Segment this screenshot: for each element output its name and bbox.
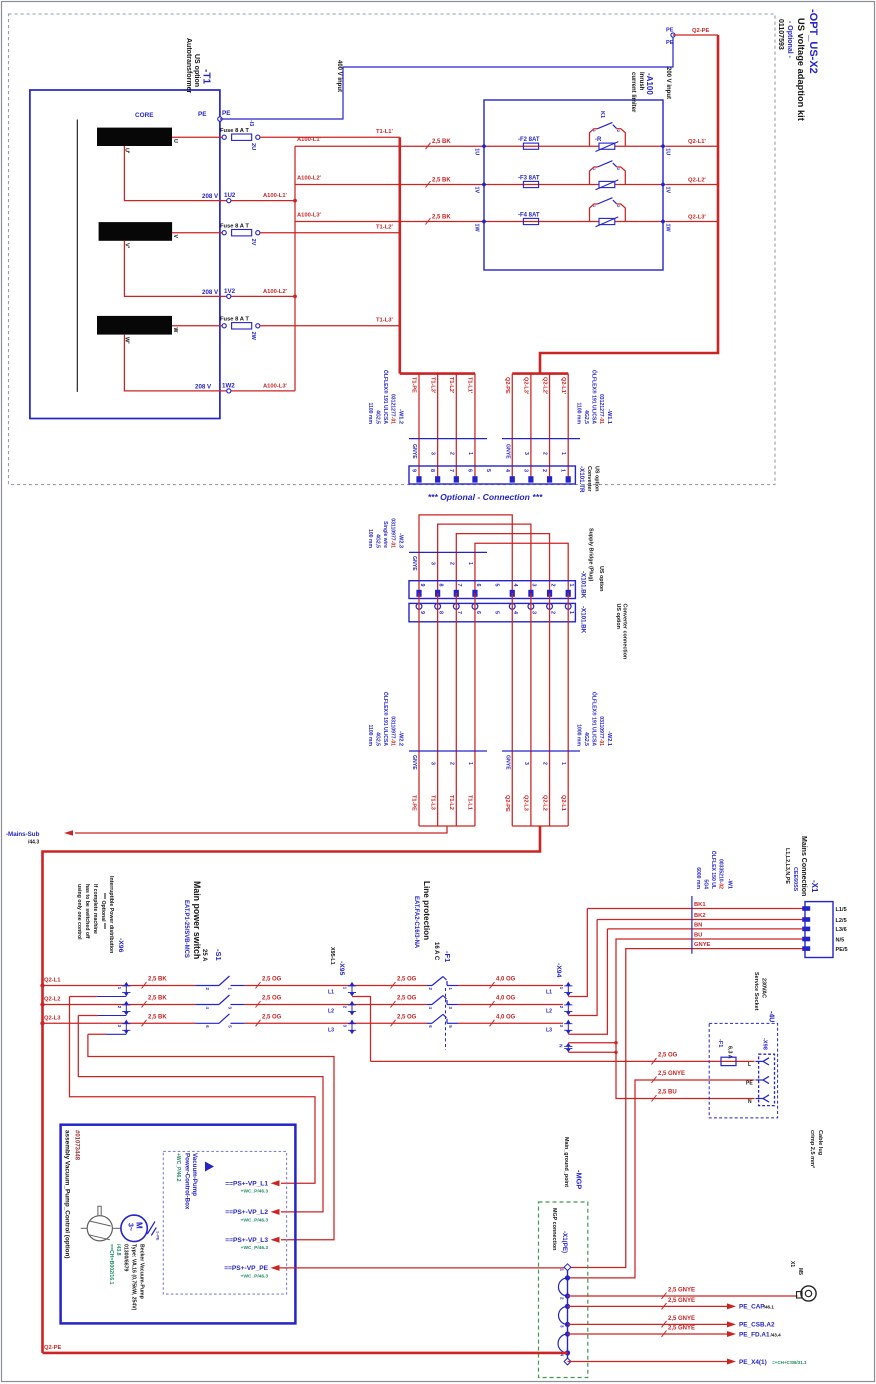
svg-text:-A100: -A100 bbox=[645, 73, 654, 95]
svg-text:US option: US option bbox=[193, 54, 200, 87]
svg-text:ÖLFLEX® 191 UL/CSA: ÖLFLEX® 191 UL/CSA bbox=[591, 370, 598, 424]
wire BN bbox=[607, 928, 805, 930]
terminal X96 pin 1 bbox=[124, 982, 129, 986]
svg-text:Q2-L3′: Q2-L3′ bbox=[523, 377, 529, 395]
svg-text:5: 5 bbox=[485, 469, 491, 472]
bypass bump 1U bbox=[590, 129, 626, 147]
svg-text:-4U: -4U bbox=[768, 1011, 775, 1022]
svg-text:-W2.3: -W2.3 bbox=[398, 533, 404, 548]
svg-text:4G2,5: 4G2,5 bbox=[583, 732, 589, 746]
terminal diamonds 1V bbox=[481, 182, 486, 187]
terminal X94 pin 2 bbox=[566, 1001, 571, 1005]
T1 merge bus bbox=[419, 825, 475, 827]
svg-text:M5: M5 bbox=[797, 1268, 803, 1275]
svg-text:1: 1 bbox=[560, 762, 566, 765]
svg-text:6: 6 bbox=[428, 1025, 433, 1028]
svg-text:-X94: -X94 bbox=[555, 963, 562, 978]
svg-text:1: 1 bbox=[448, 988, 453, 991]
wire 2,5 GNYE service socket PE bbox=[568, 1080, 755, 1278]
svg-text:Q2-L3: Q2-L3 bbox=[523, 795, 529, 811]
svg-text:L2: L2 bbox=[328, 1009, 334, 1015]
wire X96-2 to vacuum pump L2 bbox=[78, 1016, 323, 1212]
svg-text:L1,L2,L3,N,PE: L1,L2,L3,N,PE bbox=[784, 848, 790, 884]
breaker F1 pole 3 bbox=[427, 1022, 432, 1024]
svg-text:Q2-L1′: Q2-L1′ bbox=[688, 139, 706, 145]
svg-text:GNYE: GNYE bbox=[504, 444, 510, 459]
X96 pin2 stub bbox=[98, 1015, 126, 1017]
svg-text:MGP connection: MGP connection bbox=[551, 1208, 557, 1250]
terminal X95 pin 1 bbox=[347, 985, 427, 987]
wire T1-L2 long run bbox=[455, 593, 457, 826]
svg-text:5: 5 bbox=[493, 584, 499, 587]
svg-text:1: 1 bbox=[467, 562, 473, 565]
svg-text:A100-L3′: A100-L3′ bbox=[263, 383, 288, 389]
svg-text:-X95: -X95 bbox=[338, 961, 345, 976]
vacuum pump control dashed box bbox=[163, 1151, 286, 1294]
svg-text:6: 6 bbox=[466, 469, 472, 472]
svg-text:+WC_P/46.2: +WC_P/46.2 bbox=[175, 1153, 181, 1182]
svg-text:A100-L1′: A100-L1′ bbox=[263, 193, 288, 199]
svg-text:T1-L2′: T1-L2′ bbox=[448, 377, 454, 394]
NTC resistor -R 1W bbox=[599, 218, 615, 224]
NTC resistor -R 1V bbox=[599, 181, 615, 187]
svg-text:2: 2 bbox=[559, 1006, 564, 1009]
svg-text:PE: PE bbox=[666, 40, 674, 46]
svg-text:Q2-PE: Q2-PE bbox=[504, 377, 510, 394]
svg-text:assembly Vacuum_Pump_Control (: assembly Vacuum_Pump_Control (option) bbox=[64, 1130, 71, 1259]
arrow PE_X4(1) bbox=[727, 1359, 736, 1365]
svg-text:*** Optional - Connection ***: *** Optional - Connection *** bbox=[428, 492, 543, 502]
cable W1 marker line bbox=[691, 896, 693, 954]
X96 pin3 stub bbox=[106, 1033, 126, 1035]
motor PE bond symbol bbox=[147, 1222, 155, 1235]
svg-text:Q2-L2′: Q2-L2′ bbox=[688, 177, 706, 183]
svg-text:+WC_P/46.3: +WC_P/46.3 bbox=[241, 1189, 269, 1195]
node 1V2 bbox=[227, 294, 231, 298]
svg-text:GNYE: GNYE bbox=[411, 755, 417, 770]
svg-text:Supply Bridge (Plug): Supply Bridge (Plug) bbox=[588, 528, 594, 582]
wire V-prime tap 208V bbox=[124, 241, 295, 297]
svg-text:L1: L1 bbox=[546, 990, 552, 996]
svg-text:N: N bbox=[748, 1099, 752, 1105]
svg-text:Q2-L2: Q2-L2 bbox=[541, 795, 547, 811]
svg-text:3: 3 bbox=[523, 452, 529, 455]
terminal X95 pin 3 bbox=[347, 1022, 427, 1024]
svg-text:A100-L2′: A100-L2′ bbox=[297, 175, 322, 181]
svg-text:Single wire: Single wire bbox=[382, 521, 388, 548]
svg-text:2,5 BK: 2,5 BK bbox=[148, 1014, 167, 1020]
MGP pin1 dot bbox=[565, 1275, 570, 1280]
X96 pin1 stub bbox=[97, 996, 127, 998]
svg-text:L3/6: L3/6 bbox=[836, 927, 847, 933]
svg-text:2: 2 bbox=[549, 584, 555, 587]
svg-text:A100-L2′: A100-L2′ bbox=[263, 289, 288, 295]
cable W1.1 marker line bbox=[502, 438, 580, 440]
socket connector X98 dashed bbox=[759, 1054, 775, 1105]
svg-text:2,5 GNYE: 2,5 GNYE bbox=[658, 1071, 685, 1077]
X94 pin1 stub to X1 BK1 bbox=[568, 909, 587, 997]
wire T1-L2′ drop to X101.TR bbox=[455, 374, 457, 477]
svg-text:2,5 GNYE: 2,5 GNYE bbox=[668, 1326, 695, 1332]
svg-text:4,0 OG: 4,0 OG bbox=[496, 977, 516, 983]
X94 pin2 stub to X1 BK2 bbox=[568, 920, 597, 1016]
svg-text:2,5 OG: 2,5 OG bbox=[397, 996, 417, 1002]
svg-text:*** Optional ***: *** Optional *** bbox=[100, 893, 106, 930]
NTC resistor -R 1U bbox=[599, 143, 615, 149]
wire Q2-L2 long run bbox=[549, 593, 551, 826]
svg-text:L: L bbox=[748, 1062, 751, 1068]
svg-text:5G4: 5G4 bbox=[703, 879, 709, 889]
node 1U2 bbox=[227, 199, 231, 203]
breaker F1 pole 2 bbox=[427, 1004, 432, 1006]
svg-text:-X1: -X1 bbox=[810, 880, 819, 893]
X94 pin3 stub to X1 BN bbox=[568, 929, 607, 1034]
T1 core line bbox=[76, 120, 78, 392]
svg-text:03110977-01: 03110977-01 bbox=[598, 716, 604, 746]
svg-text:2: 2 bbox=[542, 762, 548, 765]
svg-text:US option: US option bbox=[594, 466, 600, 491]
cable W2.3 marker line bbox=[409, 551, 487, 553]
svg-text:GNYE: GNYE bbox=[694, 942, 711, 948]
svg-text:208 V: 208 V bbox=[195, 383, 212, 390]
wire T1-PE drop to X101.TR bbox=[418, 374, 420, 477]
supply bridge wire 7-2 bbox=[456, 534, 549, 592]
svg-text:T1-L3′: T1-L3′ bbox=[429, 377, 435, 394]
svg-text:EAT.FA2-C16/3-NA: EAT.FA2-C16/3-NA bbox=[413, 896, 419, 949]
svg-text:==PS+-VP_L3: ==PS+-VP_L3 bbox=[225, 1237, 268, 1244]
X101.BK socket pin 3 bbox=[528, 604, 534, 610]
svg-text:==PS+-VP_PE: ==PS+-VP_PE bbox=[224, 1265, 268, 1272]
svg-text:Vacuum-Pump: Vacuum-Pump bbox=[191, 1153, 198, 1196]
wire phase L1 bus to S1 bbox=[43, 985, 196, 987]
svg-text:3: 3 bbox=[430, 562, 436, 565]
svg-text:L3: L3 bbox=[546, 1027, 552, 1033]
MGP pin1 diamond bbox=[564, 1264, 571, 1271]
svg-text:2U: 2U bbox=[250, 143, 256, 150]
svg-text:Becker Vacuum-Pump: Becker Vacuum-Pump bbox=[139, 1244, 145, 1299]
svg-text:1: 1 bbox=[560, 452, 566, 455]
svg-text:1: 1 bbox=[467, 452, 473, 455]
arrow PE_CSB.A2 bbox=[727, 1321, 736, 1327]
terminal X96 pin 3 bbox=[124, 1020, 129, 1024]
svg-text:ÖLFLEX® 191 UL/CSA: ÖLFLEX® 191 UL/CSA bbox=[382, 370, 389, 424]
blue PE wire from T1 to Q2-PE bbox=[220, 35, 673, 119]
wire Q2-L1 long run bbox=[567, 593, 569, 826]
svg-text:X95-L1: X95-L1 bbox=[329, 947, 335, 965]
svg-text:PE: PE bbox=[746, 1081, 753, 1087]
wire T1-L2' fuse to riser bbox=[260, 232, 400, 234]
svg-text:3: 3 bbox=[522, 469, 528, 472]
svg-text:3: 3 bbox=[343, 1025, 348, 1028]
wire MGP pin3b to PE_FD.A1 bbox=[568, 1333, 728, 1335]
X1 terminal L3/6 bbox=[802, 927, 810, 932]
svg-text:PE: PE bbox=[222, 110, 231, 117]
thick Q2-PE to MGP pin4 bbox=[43, 1352, 568, 1355]
thick bus Q2 down-left-down bbox=[43, 826, 541, 1353]
A100 row wire 1V bbox=[484, 184, 663, 186]
svg-text:2W: 2W bbox=[250, 332, 256, 341]
winding W bbox=[97, 316, 172, 335]
wire T1-L3' fuse to riser bbox=[260, 325, 400, 327]
svg-text:2,5 GNYE: 2,5 GNYE bbox=[668, 1287, 695, 1293]
X101.BK socket pin 7 bbox=[453, 604, 459, 610]
svg-text:T1-L3: T1-L3 bbox=[429, 795, 435, 810]
svg-text:8: 8 bbox=[429, 469, 435, 472]
svg-text:-MGP: -MGP bbox=[575, 1170, 584, 1189]
svg-text:1: 1 bbox=[568, 584, 574, 587]
terminal X94 pin 3 bbox=[566, 1020, 571, 1024]
svg-text:-F4 8AT: -F4 8AT bbox=[518, 213, 540, 219]
svg-text:-S1: -S1 bbox=[214, 949, 223, 961]
svg-text:1V2: 1V2 bbox=[224, 288, 236, 295]
wire GNYE from X1 to MGP bbox=[568, 949, 806, 1268]
svg-text:2: 2 bbox=[616, 205, 620, 207]
svg-text:Interruptible Power distributi: Interruptible Power distribution bbox=[108, 876, 114, 953]
svg-text:==PS+-VP_L1: ==PS+-VP_L1 bbox=[225, 1181, 268, 1188]
svg-text:-F2 8AT: -F2 8AT bbox=[518, 137, 540, 143]
svg-text:2,5 BK: 2,5 BK bbox=[432, 177, 451, 183]
svg-text:2,5 BK: 2,5 BK bbox=[432, 214, 451, 220]
svg-text:2: 2 bbox=[117, 1006, 122, 1009]
X94 N top stub bbox=[568, 1042, 616, 1044]
terminal X94 pin 1 bbox=[566, 982, 571, 986]
wire BK2 bbox=[597, 919, 805, 921]
svg-text:2,5 OG: 2,5 OG bbox=[262, 977, 282, 983]
svg-text:US option: US option bbox=[598, 566, 604, 591]
socket strip X101.BK lower bbox=[409, 603, 575, 621]
svg-text:2,5 GNYE: 2,5 GNYE bbox=[668, 1316, 695, 1322]
wire BU bus bbox=[616, 939, 805, 1099]
label 2,5 BU bbox=[652, 1095, 657, 1102]
svg-text:Q2-L1: Q2-L1 bbox=[44, 978, 61, 984]
pump left stub bbox=[81, 1227, 88, 1229]
svg-text:BK2: BK2 bbox=[694, 913, 706, 919]
svg-text:Main_ground_point: Main_ground_point bbox=[563, 1137, 569, 1187]
svg-text:CORE: CORE bbox=[135, 112, 154, 119]
wire X96-1 to vacuum pump L1 bbox=[70, 997, 316, 1184]
svg-text:T1-L1′: T1-L1′ bbox=[376, 129, 393, 135]
A100 row wire 1U bbox=[484, 145, 663, 147]
svg-text:-X101.BK: -X101.BK bbox=[580, 571, 587, 599]
svg-text:L3: L3 bbox=[328, 1027, 334, 1033]
wire W-prime tap 208V bbox=[124, 335, 295, 391]
svg-text:M: M bbox=[135, 1222, 144, 1229]
svg-text:-T1: -T1 bbox=[201, 69, 212, 84]
svg-text:=+CH+CSB/31.1: =+CH+CSB/31.1 bbox=[772, 1360, 807, 1365]
svg-text:L2: L2 bbox=[546, 1009, 552, 1015]
svg-text:-R: -R bbox=[595, 137, 602, 143]
svg-text:Q2-PE: Q2-PE bbox=[504, 795, 510, 812]
svg-text:Converter connection: Converter connection bbox=[622, 604, 628, 660]
svg-text:-W2.1: -W2.1 bbox=[606, 731, 612, 746]
svg-text:PE/5: PE/5 bbox=[836, 947, 848, 953]
svg-text:X1: X1 bbox=[789, 1261, 795, 1267]
wire phase L3 bus to S1 bbox=[43, 1022, 196, 1024]
svg-text:1000 mm: 1000 mm bbox=[576, 724, 582, 746]
arrow PE_FD.A1 bbox=[727, 1331, 736, 1337]
svg-text:6: 6 bbox=[205, 1025, 210, 1028]
supply bridge wire 6-1 bbox=[475, 543, 568, 592]
bypass bump 1W bbox=[590, 204, 626, 222]
wire MGP pin2b to PE_CAP bbox=[568, 1305, 728, 1307]
wire Q2-L1′ drop to X101.TR bbox=[567, 374, 569, 477]
svg-text:current limiter: current limiter bbox=[630, 72, 636, 113]
svg-text:1100 mm: 1100 mm bbox=[367, 724, 373, 746]
svg-text:-Mains-Sub: -Mains-Sub bbox=[6, 831, 40, 838]
svg-text:1V: 1V bbox=[665, 187, 671, 194]
MGP arc 1-2 bbox=[558, 1278, 567, 1296]
wire Q2-PE to riser bbox=[673, 34, 718, 36]
svg-text:2: 2 bbox=[549, 611, 555, 614]
wire T1-PE long run bbox=[418, 593, 420, 826]
MGP pin2 dot a bbox=[565, 1293, 570, 1298]
svg-text:3~: 3~ bbox=[127, 1223, 134, 1231]
svg-text:W: W bbox=[172, 328, 178, 333]
svg-text:7: 7 bbox=[456, 611, 462, 614]
svg-text:Type: VA.16 (0,75kW, 254V): Type: VA.16 (0,75kW, 254V) bbox=[131, 1244, 137, 1311]
svg-text:1100 mm: 1100 mm bbox=[576, 402, 582, 424]
wire T1-L3′ drop to X101.TR bbox=[437, 374, 439, 477]
svg-text:3: 3 bbox=[430, 452, 436, 455]
svg-text:BK1: BK1 bbox=[694, 902, 706, 908]
svg-text:8: 8 bbox=[437, 584, 443, 587]
labels 2,5 BK bbox=[142, 982, 147, 989]
svg-text:4G2,5: 4G2,5 bbox=[375, 732, 381, 746]
svg-text:T1-L2: T1-L2 bbox=[448, 795, 454, 810]
wire to Mains-Sub arrow bbox=[75, 826, 447, 833]
winding V bbox=[99, 222, 173, 241]
svg-text:2,5 BK: 2,5 BK bbox=[148, 996, 167, 1002]
svg-text:4: 4 bbox=[504, 469, 510, 472]
wire F1 to X94 pole 1 bbox=[458, 985, 563, 987]
arrow ==PS+-VP_L1 bbox=[271, 1180, 280, 1186]
dashed boundary box OPT_US-X2 kit bbox=[9, 14, 776, 485]
svg-text:/43.4: /43.4 bbox=[769, 1332, 781, 1337]
svg-text:EAT.P1-25/SVB-MCS: EAT.P1-25/SVB-MCS bbox=[183, 900, 189, 958]
svg-text:-OPT_US-X2: -OPT_US-X2 bbox=[807, 9, 819, 74]
svg-text:-W1.2: -W1.2 bbox=[398, 409, 404, 424]
X1 terminal N/5 bbox=[802, 937, 810, 942]
svg-text:9: 9 bbox=[419, 584, 425, 587]
svg-text:208 V: 208 V bbox=[202, 289, 219, 296]
autotransformer T1 box bbox=[30, 90, 220, 419]
mains connection X1 box bbox=[805, 902, 833, 958]
svg-text:U: U bbox=[172, 139, 178, 143]
svg-text:03121277-01: 03121277-01 bbox=[390, 394, 396, 424]
terminal diamonds 1W bbox=[481, 219, 486, 224]
pump-motor link bbox=[112, 1227, 121, 1229]
svg-text:L1: L1 bbox=[328, 990, 334, 996]
svg-text:3: 3 bbox=[523, 762, 529, 765]
wire Q2-L2' A100 out bbox=[666, 184, 718, 186]
svg-text:crimp 2,5 mm²: crimp 2,5 mm² bbox=[809, 1130, 816, 1168]
inrush current limiter A100 box bbox=[484, 100, 663, 270]
svg-text:1W2: 1W2 bbox=[222, 382, 235, 389]
svg-text:4: 4 bbox=[512, 611, 518, 614]
svg-text:2: 2 bbox=[448, 762, 454, 765]
svg-text:Q2-L3: Q2-L3 bbox=[44, 1015, 61, 1021]
svg-text:N: N bbox=[559, 1044, 564, 1047]
breaker F1 pole 1 bbox=[427, 985, 432, 987]
wire MGP pin2 to cable lug bbox=[568, 1295, 798, 1297]
vacuum pump symbol bbox=[87, 1216, 112, 1241]
main ground point MGP dashed box bbox=[539, 1202, 588, 1378]
svg-text:If complete machine: If complete machine bbox=[92, 884, 98, 934]
svg-text:A100-L3′: A100-L3′ bbox=[297, 212, 322, 218]
svg-text:3: 3 bbox=[117, 1025, 122, 1028]
svg-text:L2/5: L2/5 bbox=[836, 918, 847, 924]
arrow PE_CAP bbox=[727, 1303, 736, 1309]
MGP arc 2-3 bbox=[559, 1306, 568, 1324]
svg-text:2: 2 bbox=[448, 562, 454, 565]
svg-text:4: 4 bbox=[428, 1007, 433, 1010]
X101.BK socket pin 2 bbox=[547, 604, 553, 610]
svg-text:3: 3 bbox=[430, 762, 436, 765]
svg-text:-F3 8AT: -F3 8AT bbox=[518, 176, 540, 182]
svg-text:ÖLFLEX® 191 UL/CSA: ÖLFLEX® 191 UL/CSA bbox=[591, 692, 598, 746]
svg-text:-F1: -F1 bbox=[443, 951, 452, 962]
svg-text:4G2,5: 4G2,5 bbox=[375, 410, 381, 424]
terminal X94 pin N bbox=[566, 1043, 571, 1047]
svg-text:4G2,5: 4G2,5 bbox=[583, 410, 589, 424]
svg-text:Service Socket: Service Socket bbox=[753, 972, 759, 1011]
wire S1 to X95 pole 1 bbox=[245, 985, 347, 987]
svg-text:-W1: -W1 bbox=[727, 879, 733, 889]
svg-text:230VAC: 230VAC bbox=[761, 978, 767, 998]
terminal X95 pin 2 bbox=[347, 1004, 427, 1006]
vacuum pump assembly box bbox=[61, 1125, 296, 1324]
svg-text:2V: 2V bbox=[250, 239, 256, 246]
bypass bump 1V bbox=[590, 167, 626, 185]
socket contact PE bbox=[756, 1079, 764, 1081]
svg-text:PE_CAP: PE_CAP bbox=[739, 1304, 765, 1311]
switch S1 pole 1 bbox=[196, 985, 220, 987]
svg-text:PE_FD.A1: PE_FD.A1 bbox=[739, 1331, 770, 1338]
X94 N bottom stub bbox=[568, 1051, 616, 1053]
wire BK1 bbox=[587, 908, 805, 910]
svg-text:03121277-01: 03121277-01 bbox=[598, 394, 604, 424]
svg-text:-X101.TR: -X101.TR bbox=[578, 466, 585, 493]
svg-text:ÖLFLEX® 191 UL/CSA: ÖLFLEX® 191 UL/CSA bbox=[382, 692, 389, 746]
arrow ==PS+-VP_L3 bbox=[271, 1237, 280, 1243]
node 1W2 bbox=[227, 389, 231, 393]
X1 terminal PE/5 bbox=[802, 946, 810, 951]
relay contact K1 1V bbox=[598, 161, 613, 167]
MGP bus bbox=[567, 1267, 569, 1361]
X1 terminal L1/5 bbox=[802, 906, 810, 911]
svg-text:2: 2 bbox=[541, 469, 547, 472]
switch S1 pole 2 bbox=[196, 1004, 220, 1006]
svg-text:Q2-PE: Q2-PE bbox=[44, 1345, 62, 1351]
svg-text:00335210-02: 00335210-02 bbox=[718, 859, 724, 889]
svg-text:3: 3 bbox=[531, 584, 537, 587]
wire Q2-L3' A100 out bbox=[666, 221, 718, 223]
svg-text:has to be switched off: has to be switched off bbox=[84, 884, 90, 939]
svg-text:400 V input: 400 V input bbox=[336, 60, 342, 92]
svg-text:1: 1 bbox=[560, 469, 566, 472]
svg-text:PE_X4(1): PE_X4(1) bbox=[739, 1359, 767, 1366]
svg-text:2: 2 bbox=[428, 988, 433, 991]
svg-text:3: 3 bbox=[531, 611, 537, 614]
pump shaft bbox=[98, 1206, 101, 1216]
node PE join Q2-PE bbox=[671, 33, 675, 37]
relay contact K1 1U bbox=[598, 122, 613, 128]
svg-text:#01073448: #01073448 bbox=[74, 1130, 80, 1161]
MGP pin4 dot bbox=[565, 1350, 570, 1355]
svg-text:6: 6 bbox=[475, 611, 481, 614]
svg-text:T1-L1′: T1-L1′ bbox=[467, 377, 473, 394]
svg-text:V: V bbox=[172, 235, 178, 239]
